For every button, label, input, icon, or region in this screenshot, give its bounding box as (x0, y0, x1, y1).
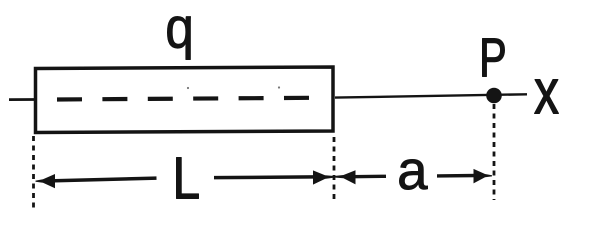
extension dashed line middle (below rod right edge) (333, 137, 336, 199)
dimension L right arrowhead (313, 170, 335, 184)
dashed centerline of rod (57, 98, 310, 100)
label a (399, 159, 427, 189)
rod (charged bar) rectangle (36, 67, 334, 133)
dimension a right arrowhead (474, 169, 493, 184)
extension dashed line right (below P) (493, 104, 496, 200)
dimension L right shaft (214, 175, 316, 179)
dimension L left shaft (50, 178, 157, 181)
label L (177, 158, 199, 199)
node P dot (486, 88, 502, 104)
left stub wire (9, 98, 34, 101)
dimension a right shaft (437, 174, 477, 178)
speck noise 1 (187, 87, 189, 89)
speck noise 2 (278, 86, 280, 88)
label P (483, 39, 505, 77)
dimension a left arrowhead (334, 170, 356, 184)
label q (charge on rod) (167, 16, 190, 59)
dimension L left arrowhead (36, 174, 56, 188)
dimension a left shaft (352, 175, 386, 179)
extension dashed line left (below rod left edge) (32, 136, 35, 208)
label x (axis) (535, 80, 559, 114)
wire from rod to x axis (335, 94, 527, 97)
